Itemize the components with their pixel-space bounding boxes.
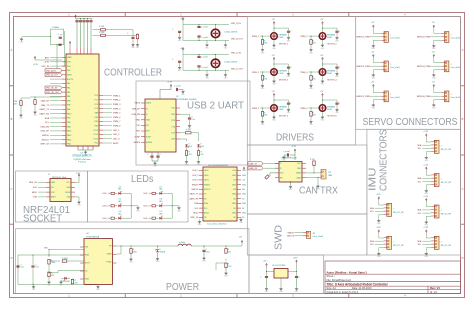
capacitor C VM2a bbox=[197, 26, 200, 27]
svg-text:P 0.5mm: P 0.5mm bbox=[78, 162, 86, 164]
svg-text:UART_TX: UART_TX bbox=[40, 108, 50, 111]
svg-text:PWM_5: PWM_5 bbox=[113, 113, 121, 115]
power flag +3.3V imu 1 bbox=[425, 134, 427, 138]
LED D2 bbox=[185, 144, 189, 148]
svg-text:LED_3: LED_3 bbox=[103, 218, 110, 220]
svg-text:Sheet: /: Sheet: / bbox=[327, 275, 336, 278]
svg-text:CONTROLLER: CONTROLLER bbox=[104, 67, 162, 78]
ground VM2 left bbox=[178, 35, 182, 42]
capacitor C driver 1 bbox=[287, 31, 290, 32]
svg-text:J10 LED&SWD&PWR: J10 LED&SWD&PWR bbox=[208, 165, 228, 167]
svg-text:SCL: SCL bbox=[418, 181, 422, 183]
section box LEDs bbox=[87, 171, 188, 222]
ground R24 bbox=[224, 271, 228, 278]
capacitor C VM3c bbox=[178, 61, 181, 62]
svg-text:LED_3: LED_3 bbox=[192, 180, 199, 182]
svg-text:PB9: PB9 bbox=[67, 105, 70, 107]
ground J12 bbox=[316, 184, 320, 191]
svg-text:LED_1: LED_1 bbox=[144, 193, 151, 195]
U6 internal pin names bbox=[280, 163, 302, 179]
resistor R driver 4 bbox=[310, 76, 312, 81]
svg-text:GND: GND bbox=[85, 279, 90, 281]
section box IMU CONNECTORS bbox=[367, 129, 461, 255]
svg-text:PB6: PB6 bbox=[67, 122, 70, 124]
resistor R34 bbox=[34, 97, 36, 100]
svg-text:ANT: ANT bbox=[45, 56, 50, 59]
svg-text:USB_DM: USB_DM bbox=[40, 126, 49, 128]
svg-text:MOSI: MOSI bbox=[65, 192, 70, 194]
LED D6 bbox=[114, 217, 117, 219]
resistor R3 bbox=[137, 33, 139, 35]
ground VM3 b bbox=[224, 73, 228, 80]
svg-text:PC11: PC11 bbox=[94, 134, 98, 136]
svg-text:J: J bbox=[451, 94, 452, 96]
capacitor C9 bbox=[170, 88, 172, 90]
svg-text:GND: GND bbox=[242, 213, 247, 215]
J1 left net labels bbox=[29, 182, 38, 198]
power flag +5V servo 2 bbox=[433, 25, 435, 29]
imu 5 wires bbox=[375, 200, 384, 218]
svg-text:UART_RX: UART_RX bbox=[189, 197, 199, 200]
svg-text:SCL: SCL bbox=[204, 208, 208, 210]
ground VM2 b bbox=[224, 43, 228, 50]
svg-text:MOTOR_3: MOTOR_3 bbox=[279, 79, 288, 81]
svg-text:J: J bbox=[393, 241, 394, 243]
ground input rail bbox=[32, 285, 36, 292]
svg-text:VM1_A_OUT: VM1_A_OUT bbox=[46, 74, 59, 77]
resistor R7 bbox=[150, 192, 152, 194]
svg-text:J11: J11 bbox=[312, 233, 315, 235]
svg-text:B: B bbox=[462, 117, 464, 121]
ground R driver 2 bbox=[309, 48, 313, 55]
power flag +3.3V imu 6 bbox=[378, 230, 380, 234]
capacitor C6 bbox=[59, 37, 62, 38]
svg-text:LED_1: LED_1 bbox=[103, 193, 110, 195]
svg-text:Conn_01x03: Conn_01x03 bbox=[390, 38, 400, 40]
U1 internal pin names left column bbox=[67, 56, 73, 145]
svg-text:SUSP: SUSP bbox=[135, 136, 141, 138]
svg-text:Autor [Redline : Kunal Saini ]: Autor [Redline : Kunal Saini ] bbox=[327, 270, 367, 274]
svg-text:PA3: PA3 bbox=[67, 95, 70, 98]
svg-text:BUZZ: BUZZ bbox=[193, 213, 199, 215]
ground imu 2 bbox=[425, 189, 429, 196]
svg-text:+3.3V: +3.3V bbox=[376, 194, 382, 196]
ground imu 6 bbox=[377, 251, 381, 258]
power flag +3.3V imu 5 bbox=[378, 197, 380, 201]
LED D5 bbox=[114, 205, 117, 207]
svg-text:SERVO3_PWM: SERVO3_PWM bbox=[356, 66, 370, 68]
ground C17 bbox=[295, 287, 299, 294]
resistor R driver 6 bbox=[310, 112, 312, 117]
ground C15 bbox=[202, 256, 206, 263]
transceiver U6 SN65HVD230 body bbox=[279, 162, 302, 183]
J10 pin stubs bbox=[199, 171, 241, 218]
svg-text:PA0: PA0 bbox=[67, 82, 70, 85]
U2 internal pin names bbox=[146, 103, 176, 144]
power flag +3.3V LDO out bbox=[296, 260, 298, 264]
power flag +5V driver 6 bbox=[322, 93, 324, 97]
ground R21 bbox=[47, 280, 51, 287]
capacitor C4 decoupling bbox=[87, 19, 89, 21]
U1 right pin stubs bbox=[99, 96, 103, 144]
inductor L1 bbox=[178, 244, 191, 246]
svg-text:A: A bbox=[11, 48, 13, 52]
imu 3 wires bbox=[422, 202, 431, 220]
svg-text:Title: 8 Axis Articulated Robo: Title: 8 Axis Articulated Robot Controll… bbox=[327, 282, 389, 286]
svg-text:VBUS: VBUS bbox=[146, 103, 152, 105]
svg-text:PD2: PD2 bbox=[95, 143, 99, 145]
svg-text:+3.3V: +3.3V bbox=[33, 64, 39, 66]
svg-text:BOOT0: BOOT0 bbox=[67, 79, 73, 81]
resistor R2 BOOT pullup bbox=[93, 34, 101, 36]
ground LED group 2 bbox=[177, 206, 181, 213]
connector J servo 4 bbox=[441, 61, 449, 72]
ground cap driver 4 bbox=[335, 72, 339, 79]
svg-text:LED_1: LED_1 bbox=[113, 130, 120, 132]
crystal Y1 circuit wires bbox=[22, 29, 65, 70]
svg-text:PGND: PGND bbox=[106, 262, 112, 264]
ground for R33 bbox=[19, 113, 23, 120]
svg-text:D 1N4148: D 1N4148 bbox=[62, 281, 70, 283]
svg-text:SERVO4_PWM: SERVO4_PWM bbox=[417, 66, 431, 68]
resistor R6 bbox=[109, 217, 111, 219]
svg-text:PA10: PA10 bbox=[67, 112, 71, 115]
power flag +3.3V U1 bbox=[69, 41, 71, 45]
svg-text:LEDs: LEDs bbox=[131, 174, 154, 185]
svg-text:C_small: C_small bbox=[283, 151, 290, 153]
USB bridge U2 CP2104 body bbox=[145, 99, 176, 152]
svg-text:SWD: SWD bbox=[274, 225, 285, 250]
svg-text:Conn_01x03: Conn_01x03 bbox=[390, 67, 400, 69]
svg-text:J: J bbox=[441, 179, 442, 181]
power flag +3.3V bbox=[75, 15, 77, 19]
svg-text:CAN_TX: CAN_TX bbox=[41, 104, 50, 107]
svg-text:NRF_CE: NRF_CE bbox=[190, 217, 199, 219]
svg-text:Id: 1/1: Id: 1/1 bbox=[430, 291, 438, 294]
capacitor C15 output bbox=[202, 250, 205, 251]
power flag +3.3V imu 3 bbox=[425, 198, 427, 202]
svg-text:+3.3V: +3.3V bbox=[376, 227, 382, 229]
svg-text:J: J bbox=[393, 208, 394, 210]
motor driver U1 circle bbox=[271, 33, 278, 40]
svg-text:VM1_B_OUT: VM1_B_OUT bbox=[231, 39, 244, 41]
ground cap driver 3 bbox=[287, 72, 291, 79]
svg-text:Vref: Vref bbox=[280, 173, 284, 175]
svg-text:VM1_D_IN: VM1_D_IN bbox=[231, 53, 241, 55]
diode D5 bbox=[63, 277, 67, 281]
svg-text:J: J bbox=[390, 34, 391, 36]
microcontroller U1 STM32F103 body bbox=[66, 54, 99, 146]
ground R driver 3 bbox=[261, 84, 265, 91]
svg-text:SUSPb: SUSPb bbox=[146, 142, 152, 144]
svg-text:PWM_4: PWM_4 bbox=[300, 72, 308, 74]
imu 1 wires bbox=[422, 137, 431, 155]
servo 1 wires bbox=[370, 29, 381, 44]
ground driver 1 bbox=[272, 43, 276, 50]
svg-text:SDA: SDA bbox=[194, 202, 199, 205]
svg-text:VIO: VIO bbox=[137, 125, 141, 127]
svg-text:PA1: PA1 bbox=[67, 86, 70, 89]
svg-text:Conn_02x11_Odd_Even: Conn_02x11_Odd_Even bbox=[207, 223, 227, 225]
ground U4 bbox=[97, 283, 99, 285]
motor driver U5 circle bbox=[271, 105, 278, 112]
svg-text:DRIVERS: DRIVERS bbox=[276, 133, 314, 144]
global label CAN_RX bbox=[248, 167, 263, 170]
svg-text:+3.3V: +3.3V bbox=[423, 196, 429, 198]
+3.3V rail for decoupling bank bbox=[76, 18, 93, 20]
ground servo 2 bbox=[432, 44, 436, 51]
LED D4 bbox=[114, 192, 117, 194]
LED group 2 bus wire bbox=[171, 193, 173, 218]
title block frame bbox=[325, 261, 461, 294]
connector J imu 6 bbox=[384, 236, 392, 249]
svg-text:Size: A4: Size: A4 bbox=[327, 287, 337, 290]
svg-text:B340A: B340A bbox=[160, 251, 166, 254]
servo 2 wires bbox=[431, 29, 442, 44]
capacitor C16 bbox=[265, 277, 268, 278]
svg-text:IMU_I2C_SPI: IMU_I2C_SPI bbox=[393, 212, 404, 214]
resistor R20 bbox=[48, 259, 50, 264]
svg-text:SWDIO: SWDIO bbox=[287, 232, 294, 234]
svg-text:NRF24L01_Mod: NRF24L01_Mod bbox=[52, 177, 66, 179]
svg-text:Conn_01x02: Conn_01x02 bbox=[312, 236, 323, 238]
svg-text:PB0: PB0 bbox=[95, 117, 98, 119]
svg-text:OSC_IN: OSC_IN bbox=[41, 66, 49, 68]
ground C10 bbox=[188, 124, 192, 131]
svg-text:UART_RX: UART_RX bbox=[39, 113, 49, 116]
svg-text:C_sm: C_sm bbox=[58, 34, 63, 36]
ground U5 bbox=[279, 287, 283, 294]
power flag +3.3V CAN bbox=[294, 149, 296, 153]
U1 left net labels bbox=[39, 56, 50, 145]
svg-text:SCL: SCL bbox=[370, 244, 374, 246]
global label CAN_TX bbox=[248, 162, 263, 165]
svg-text:+VM1: +VM1 bbox=[180, 48, 185, 50]
U2 left net labels bbox=[132, 103, 141, 144]
svg-text:+3.3V: +3.3V bbox=[44, 62, 50, 64]
ground C18 bbox=[282, 155, 286, 162]
servo 3 wires bbox=[370, 58, 381, 73]
LED D8 bbox=[155, 205, 158, 207]
motor driver U6 circle bbox=[319, 105, 326, 112]
svg-text:SWDIO: SWDIO bbox=[204, 184, 211, 186]
resistor R4 bbox=[109, 192, 111, 194]
motor driver U2 circle bbox=[319, 33, 326, 40]
svg-text:SUSP: SUSP bbox=[146, 136, 152, 138]
section box POWER bbox=[16, 229, 250, 294]
svg-text:PWM_6: PWM_6 bbox=[113, 117, 121, 119]
power flag +5V servo 4 bbox=[433, 54, 435, 58]
svg-text:4.7u: 4.7u bbox=[21, 267, 25, 269]
junction dots on decoupling bank bbox=[80, 18, 81, 19]
svg-text:U6 SN65HVD230: U6 SN65HVD230 bbox=[281, 158, 298, 160]
svg-text:GND: GND bbox=[242, 175, 247, 177]
ground for R3 bbox=[136, 43, 140, 50]
capacitor C VM3a bbox=[197, 56, 200, 57]
svg-text:+3.3V: +3.3V bbox=[76, 173, 82, 175]
svg-text:C_small: C_small bbox=[201, 67, 208, 69]
capacitor C3 decoupling bbox=[83, 19, 85, 21]
svg-text:SWDIO: SWDIO bbox=[42, 135, 49, 137]
svg-text:DSGR: DSGR bbox=[327, 37, 333, 39]
ground for C8 bbox=[131, 43, 135, 50]
svg-text:PWM_8: PWM_8 bbox=[113, 126, 121, 128]
U1 left pin stubs bbox=[62, 58, 66, 144]
svg-text:SCL: SCL bbox=[418, 213, 422, 215]
svg-text:LED1: LED1 bbox=[204, 170, 209, 172]
svg-text:Y1 8MHz: Y1 8MHz bbox=[52, 27, 59, 29]
svg-text:A: A bbox=[462, 48, 464, 52]
svg-text:4.7u: 4.7u bbox=[36, 267, 40, 269]
svg-text:USB_DP: USB_DP bbox=[41, 131, 50, 133]
U2 right pin stubs bbox=[176, 108, 180, 139]
svg-text:GND: GND bbox=[51, 182, 56, 184]
svg-text:PWM_7: PWM_7 bbox=[113, 121, 121, 123]
power flag +5V driver 5 bbox=[273, 93, 275, 97]
svg-text:PB8: PB8 bbox=[67, 100, 70, 102]
svg-text:IMU_I2C_SPI: IMU_I2C_SPI bbox=[441, 149, 452, 151]
svg-text:PWM_1: PWM_1 bbox=[252, 36, 260, 38]
svg-text:LED_2: LED_2 bbox=[144, 206, 151, 208]
NRF socket J1 body bbox=[50, 179, 71, 202]
power flag +3.3V NRF bbox=[75, 182, 79, 184]
ground servo 3 bbox=[372, 73, 376, 80]
section box 3V3 regulator bbox=[249, 255, 324, 294]
svg-text:GND: GND bbox=[232, 213, 237, 215]
svg-text:R 470: R 470 bbox=[186, 130, 191, 132]
driver U2 circle bbox=[211, 29, 219, 37]
svg-text:SCL: SCL bbox=[370, 211, 374, 213]
svg-text:C_small: C_small bbox=[201, 26, 208, 28]
svg-text:PC10: PC10 bbox=[94, 130, 99, 132]
power flag +3.3V imu 4 bbox=[425, 230, 427, 234]
svg-text:GND: GND bbox=[232, 194, 237, 196]
svg-text:J12: J12 bbox=[328, 172, 331, 174]
capacitor top feed VM2 bbox=[182, 21, 184, 24]
svg-text:DSGR: DSGR bbox=[279, 37, 285, 39]
svg-text:+3.3V: +3.3V bbox=[291, 146, 297, 148]
ground VM2 a bbox=[205, 43, 209, 50]
LED D3 bbox=[197, 144, 201, 148]
motor driver U3 circle bbox=[271, 69, 278, 76]
LED D7 bbox=[155, 192, 158, 194]
U1 internal pin names right column bbox=[94, 95, 99, 145]
svg-text:0 QFP64 10x10mm: 0 QFP64 10x10mm bbox=[73, 159, 91, 161]
svg-text:J: J bbox=[441, 210, 442, 212]
ground NRF bbox=[75, 196, 79, 198]
svg-text:VSNS: VSNS bbox=[107, 254, 113, 256]
svg-text:MISO: MISO bbox=[51, 197, 56, 199]
U1 top power pins bbox=[70, 48, 91, 54]
svg-text:GND: GND bbox=[242, 184, 247, 186]
wire feed to U4 bbox=[49, 272, 58, 274]
svg-text:Conn_01x03: Conn_01x03 bbox=[451, 38, 461, 40]
svg-text:GND: GND bbox=[232, 184, 237, 186]
svg-text:LED_2: LED_2 bbox=[103, 206, 110, 208]
driver U3 circle bbox=[211, 59, 219, 67]
svg-text:C_small: C_small bbox=[201, 37, 208, 39]
svg-text:KiCad E.D.A. kicad (5.1.5)-3: KiCad E.D.A. kicad (5.1.5)-3 bbox=[327, 291, 359, 294]
imu 4 wires bbox=[422, 233, 431, 251]
power flag +3.3V imu 2 bbox=[425, 167, 427, 171]
LED D9 bbox=[155, 217, 158, 219]
capacitor C7 bbox=[58, 44, 61, 45]
ground servo 1 bbox=[372, 44, 376, 51]
resistor R25 120R bbox=[313, 161, 315, 166]
connector J imu 4 bbox=[431, 236, 439, 249]
svg-text:GND: GND bbox=[297, 168, 302, 170]
ground U1 bbox=[84, 150, 88, 157]
svg-text:STM32F103RCT6: STM32F103RCT6 bbox=[72, 155, 92, 158]
svg-text:SWCLK: SWCLK bbox=[204, 189, 211, 191]
svg-text:J: J bbox=[390, 64, 391, 66]
ground cap driver 6 bbox=[335, 108, 339, 115]
svg-text:C_small: C_small bbox=[201, 56, 208, 58]
driver 2 wires bbox=[309, 25, 338, 47]
svg-text:+3.3V: +3.3V bbox=[423, 227, 429, 229]
svg-text:DSGR: DSGR bbox=[327, 73, 333, 75]
svg-text:IMU_I2C_SPI: IMU_I2C_SPI bbox=[441, 214, 452, 216]
U1 bottom pins bbox=[78, 146, 93, 150]
svg-text:GND: GND bbox=[242, 194, 247, 196]
resistor R27 bbox=[72, 277, 74, 280]
power flag +3.3V USB bbox=[170, 84, 172, 88]
svg-text:CANL: CANL bbox=[296, 176, 301, 179]
ground imu 1 bbox=[425, 155, 429, 162]
U1 global labels VM inputs bbox=[45, 69, 62, 73]
svg-text:VM1_D_OUT: VM1_D_OUT bbox=[231, 68, 244, 70]
resistor R22 bbox=[130, 249, 132, 254]
resistor R driver 3 bbox=[261, 76, 263, 81]
pin header J10 body bbox=[203, 167, 237, 221]
svg-text:SOCKET: SOCKET bbox=[23, 214, 62, 225]
svg-text:PA14: PA14 bbox=[67, 138, 71, 141]
U4 output rail wire bbox=[117, 244, 243, 270]
svg-text:VM1_A_IN: VM1_A_IN bbox=[46, 69, 56, 72]
capacitor C VM2c bbox=[178, 31, 181, 32]
svg-text:SWCLK: SWCLK bbox=[42, 139, 50, 141]
ground VM3 left bbox=[178, 65, 182, 72]
svg-text:DSGR: DSGR bbox=[279, 109, 285, 111]
section box DRIVERS bbox=[247, 17, 355, 146]
svg-text:CAN_TX: CAN_TX bbox=[249, 162, 258, 165]
ground driver 2 bbox=[321, 43, 325, 50]
svg-text:D+: D+ bbox=[146, 108, 148, 110]
svg-text:L 33uH: L 33uH bbox=[179, 242, 186, 244]
resistor R1 NRST pullup bbox=[93, 29, 101, 31]
svg-text:MOTOR_5: MOTOR_5 bbox=[279, 115, 288, 117]
ground U2 bbox=[153, 161, 157, 168]
svg-text:SDA: SDA bbox=[45, 117, 50, 120]
servo 4 wires bbox=[431, 58, 442, 73]
U2 right wires bbox=[180, 114, 199, 141]
svg-text:U5 LD1117S33: U5 LD1117S33 bbox=[272, 265, 286, 267]
regulator U4 TPS5430 body bbox=[84, 239, 113, 285]
CAN right wires bbox=[306, 166, 321, 184]
svg-text:SERVO CONNECTORS: SERVO CONNECTORS bbox=[363, 117, 458, 128]
VM driver U2 wires bbox=[180, 25, 229, 43]
svg-text:B: B bbox=[11, 117, 13, 121]
resistor R26 ena bbox=[49, 260, 60, 262]
power flag +3.3V VBAT bbox=[34, 56, 36, 60]
resistor R driver 1 bbox=[261, 40, 263, 45]
svg-text:+3.3V: +3.3V bbox=[423, 131, 429, 133]
svg-text:PA12: PA12 bbox=[67, 130, 71, 133]
section box USB 2 UART bbox=[136, 81, 250, 165]
U6 RS resistor mark bbox=[270, 172, 275, 174]
svg-text:J: J bbox=[441, 145, 442, 147]
connector J12 CAN body bbox=[321, 170, 326, 180]
